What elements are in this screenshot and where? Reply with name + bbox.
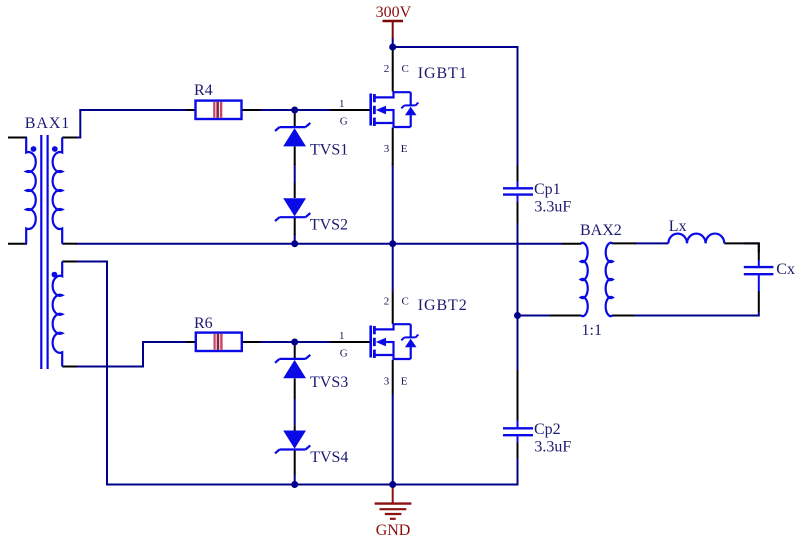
svg-text:TVS3: TVS3 xyxy=(310,374,348,391)
svg-text:TVS2: TVS2 xyxy=(310,217,348,234)
svg-text:C: C xyxy=(402,295,409,307)
svg-text:G: G xyxy=(340,116,348,128)
svg-text:G: G xyxy=(340,348,348,360)
svg-text:TVS4: TVS4 xyxy=(310,449,348,466)
svg-text:1: 1 xyxy=(339,330,345,342)
svg-text:BAX2: BAX2 xyxy=(580,222,622,239)
svg-text:BAX1: BAX1 xyxy=(25,115,70,132)
svg-text:IGBT2: IGBT2 xyxy=(418,297,468,314)
svg-text:E: E xyxy=(401,143,408,155)
svg-text:3.3uF: 3.3uF xyxy=(534,199,571,216)
svg-text:Cp2: Cp2 xyxy=(534,421,561,438)
svg-text:2: 2 xyxy=(384,295,390,307)
svg-text:E: E xyxy=(401,375,408,387)
svg-text:Lx: Lx xyxy=(669,218,687,235)
svg-text:1: 1 xyxy=(339,98,345,110)
svg-text:GND: GND xyxy=(376,522,411,539)
svg-text:C: C xyxy=(402,63,409,75)
svg-text:1:1: 1:1 xyxy=(582,322,602,339)
svg-text:Cx: Cx xyxy=(776,261,795,278)
svg-text:TVS1: TVS1 xyxy=(310,141,348,158)
svg-text:Cp1: Cp1 xyxy=(534,181,561,198)
svg-text:300V: 300V xyxy=(376,4,412,21)
svg-text:2: 2 xyxy=(384,63,390,75)
svg-text:3.3uF: 3.3uF xyxy=(534,439,571,456)
svg-text:3: 3 xyxy=(384,375,390,387)
svg-text:3: 3 xyxy=(384,143,390,155)
svg-text:R6: R6 xyxy=(194,315,213,332)
svg-text:IGBT1: IGBT1 xyxy=(418,65,468,82)
svg-text:R4: R4 xyxy=(194,82,213,99)
